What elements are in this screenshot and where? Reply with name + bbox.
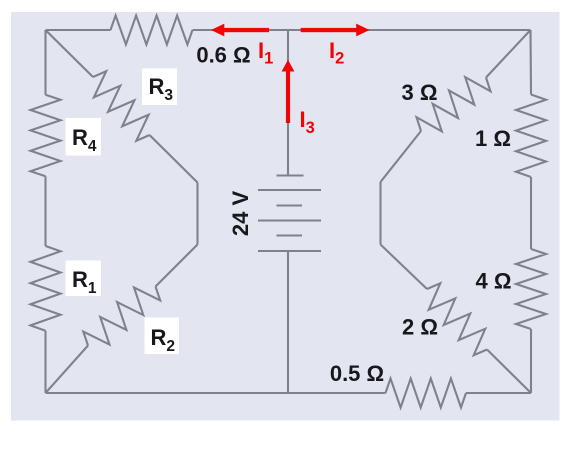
svg-text:3 Ω: 3 Ω [402,80,438,105]
wire left edge lower [44,331,46,393]
wire bottom-right segment [466,392,531,394]
svg-text:0.5 Ω: 0.5 Ω [330,361,384,386]
battery plate short 1 [277,204,303,206]
label box R3 [142,69,177,106]
wire node to R2 [156,245,198,287]
resistor R2 [83,287,160,346]
svg-text:4 Ω: 4 Ω [476,269,512,294]
wire left edge upper [44,30,46,95]
wire left inner vertical [196,183,198,245]
wire 3 ohm to node [381,131,422,182]
battery plate long 1 [258,189,321,191]
svg-text:1 Ω: 1 Ω [475,126,511,151]
wire right edge lower [530,329,532,393]
resistor 4 ohm [516,249,546,329]
battery plate short 2 [277,234,303,236]
battery plate long 3 [258,250,321,252]
resistor R3 [93,71,150,141]
battery terminal tick [277,174,304,176]
wire right inner vertical [379,182,381,245]
current arrow I1 [211,24,269,37]
battery plate long 2 [258,219,321,221]
resistor 2 ohm [427,283,487,355]
label box R1 [66,261,102,297]
svg-text:0.6 Ω: 0.6 Ω [196,43,250,68]
current arrow I3 [282,60,295,123]
resistor R4 [31,95,61,177]
label box R4 [66,118,102,156]
resistor 0.6 ohm [111,16,193,45]
wire left edge middle [44,176,46,246]
wire node to 2 ohm [381,245,428,290]
wire R2 to bottom-left corner [46,346,89,394]
wire battery to bottom [287,251,289,393]
wire center top to battery [287,30,289,176]
wire diagonal top-left to R3 [46,30,94,77]
wire right edge middle [530,177,532,249]
resistor R1 [31,246,61,331]
svg-text:2 Ω: 2 Ω [402,315,438,340]
wire diagonal top-right to 3 ohm [486,30,531,78]
svg-text:24 V: 24 V [228,191,253,237]
resistor 0.5 ohm [386,379,467,408]
wire top-left segment [46,29,111,31]
wire right edge upper [529,30,532,95]
wire 2 ohm to bottom-right corner [487,350,531,394]
label box R2 [145,318,180,355]
wire top-right segment [193,29,531,31]
resistor 3 ohm [417,77,491,131]
wire diagonal R3 to node [150,135,198,183]
current arrow I2 [301,24,370,37]
resistor 1 ohm [516,95,546,178]
wire bottom-left segment [46,392,386,394]
